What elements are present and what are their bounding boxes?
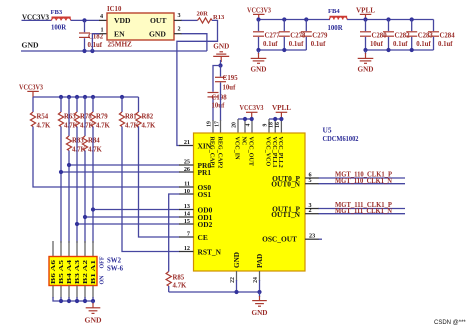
svg-text:10uf: 10uf <box>370 41 384 48</box>
wire pull-up rail <box>33 96 139 98</box>
svg-text:R82: R82 <box>142 113 154 120</box>
svg-text:19: 19 <box>207 121 213 127</box>
pin 20 stub (VCC_IN) <box>237 119 239 133</box>
svg-text:B2 A2: B2 A2 <box>82 259 89 284</box>
node junction PAD/rail <box>257 290 261 294</box>
resistor R63 4.7K (PR1 pull-up) <box>58 97 78 243</box>
node junction C282 bottom <box>386 48 390 52</box>
wire R81 to RST_N <box>122 127 180 252</box>
wire GND node to C198 branch <box>213 66 221 92</box>
wire OS1 from pin 10 down <box>179 193 194 195</box>
svg-text:B5 A5: B5 A5 <box>58 259 65 284</box>
wire VCC3V3 top rail <box>259 19 331 21</box>
svg-text:VCC_PLL2: VCC_PLL2 <box>277 137 283 168</box>
svg-text:VCC_PLL1: VCC_PLL1 <box>271 137 277 168</box>
svg-text:0.1uf: 0.1uf <box>263 41 278 48</box>
pin 16 stub (VCC_PLL2) <box>280 119 282 133</box>
power VCC3V3 (U5 core supply) <box>240 104 264 119</box>
pin 19 stub (REG_CAP1) <box>212 120 214 133</box>
svg-text:CDCM61002: CDCM61002 <box>323 134 359 143</box>
svg-text:MGT_110_CLK1_N: MGT_110_CLK1_N <box>335 178 392 185</box>
svg-text:OUT0_N: OUT0_N <box>271 180 300 189</box>
wire OSC_OUT stub <box>305 238 319 240</box>
node junction C283 <box>410 17 414 21</box>
svg-text:SW2: SW2 <box>107 257 122 264</box>
resistor R82 4.7K (CE pull-up) <box>136 97 156 130</box>
svg-text:22: 22 <box>230 277 236 283</box>
svg-text:R79: R79 <box>96 113 108 120</box>
ground GND (VPLL caps) <box>358 50 374 74</box>
capacitor C198 10uf <box>208 93 228 122</box>
svg-text:4: 4 <box>246 123 252 126</box>
svg-text:0.1uf: 0.1uf <box>311 41 326 48</box>
ground GND (above C195/C198) <box>213 43 229 66</box>
svg-text:PR1: PR1 <box>198 168 212 177</box>
svg-text:R84: R84 <box>88 137 100 144</box>
svg-text:0.1uf: 0.1uf <box>88 42 103 49</box>
node junction rail col2 <box>59 299 63 303</box>
svg-text:EN: EN <box>114 30 125 39</box>
node junction PR0/col <box>67 163 71 167</box>
svg-text:0.1uf: 0.1uf <box>416 41 431 48</box>
node junction rail/R79 <box>91 95 95 99</box>
node junction rail/R78 <box>75 95 79 99</box>
svg-text:18: 18 <box>269 122 275 128</box>
pin 18 stub (VCC_PLL1) <box>274 119 276 133</box>
svg-text:MGT_111_CLK1_N: MGT_111_CLK1_N <box>335 208 392 215</box>
svg-text:CSDN @***: CSDN @*** <box>434 320 466 326</box>
svg-text:OS1: OS1 <box>198 190 212 199</box>
wire OD1 <box>85 216 180 218</box>
svg-text:VCC_IN: VCC_IN <box>234 137 240 161</box>
wire OD2 <box>77 223 180 225</box>
node junction GND/C195/C198 <box>218 63 222 67</box>
power VPLL (decoupling group) <box>356 6 375 19</box>
ferrite bead FB4 <box>328 8 348 32</box>
node junction C278 <box>282 17 286 21</box>
wire VPLL tie bar <box>269 118 281 120</box>
node junction C277 bottom <box>256 48 260 52</box>
svg-text:FB4: FB4 <box>328 8 340 15</box>
resistor R81 4.7K (RST_N pull-up) <box>119 97 139 130</box>
capacitor C283 0.1uf <box>406 20 433 51</box>
svg-text:4.7K: 4.7K <box>96 123 110 130</box>
svg-text:16: 16 <box>275 122 281 128</box>
svg-text:4.7K: 4.7K <box>37 123 51 130</box>
svg-text:C277: C277 <box>265 33 281 40</box>
switch SW2 SW-6 <box>49 241 124 298</box>
wire PR0 <box>69 164 180 166</box>
svg-text:C284: C284 <box>440 33 456 40</box>
svg-text:R54: R54 <box>37 113 49 120</box>
svg-text:VCC3V3: VCC3V3 <box>247 6 271 14</box>
wire bottom rail (VPLL caps) <box>366 49 434 51</box>
wire R13 to XIN routing <box>177 20 218 145</box>
resistor R83 4.7K (PR0 pull-up) <box>66 97 86 243</box>
wire switch common rail <box>53 297 93 301</box>
capacitor C277 0.1uf <box>253 20 280 51</box>
capacitor C195 10uf <box>215 66 238 122</box>
svg-text:OUT: OUT <box>150 16 166 25</box>
pin 4 stub (VCC_OUT) <box>251 119 253 133</box>
svg-text:C198: C198 <box>212 95 228 102</box>
node junction C279 <box>304 17 308 21</box>
resistor R13 20R <box>197 10 226 23</box>
svg-text:REG_CAP1: REG_CAP1 <box>209 137 215 169</box>
power VPLL (U5 PLL supply) <box>272 104 291 119</box>
svg-text:24: 24 <box>253 277 259 283</box>
svg-text:GND: GND <box>22 42 39 50</box>
pin 17 stub (REG_CAP2) <box>220 120 222 133</box>
svg-text:100R: 100R <box>51 25 66 32</box>
node junction OD0/col <box>91 207 95 211</box>
wire FB4 to VPLL rail <box>347 19 433 21</box>
svg-text:OSC_OUT: OSC_OUT <box>262 234 297 243</box>
wire OD0 <box>93 209 180 211</box>
svg-text:GND: GND <box>149 30 166 39</box>
wire R82 to CE <box>139 127 180 238</box>
node junction rail/R84 <box>83 95 87 99</box>
node junction GND pin/rail <box>234 290 238 294</box>
svg-text:B6 A6: B6 A6 <box>50 259 57 284</box>
svg-text:4: 4 <box>100 13 103 20</box>
svg-text:VCC_VCO: VCC_VCO <box>265 137 271 167</box>
node junction EN/GND <box>90 49 94 53</box>
svg-text:0.1uf: 0.1uf <box>438 41 453 48</box>
svg-text:GND: GND <box>213 43 229 51</box>
svg-text:1: 1 <box>101 26 104 33</box>
svg-text:B4 A4: B4 A4 <box>66 259 73 284</box>
svg-text:GND: GND <box>233 252 241 268</box>
node junction rail col4 <box>75 299 79 303</box>
svg-text:4.7K: 4.7K <box>88 147 102 154</box>
svg-text:3: 3 <box>178 12 181 19</box>
power VCC3V3 (decoupling group) <box>247 6 271 19</box>
svg-text:CE: CE <box>198 233 208 242</box>
svg-text:2: 2 <box>178 26 181 33</box>
resistor R54 4.7K (OS0 pull-up) <box>30 97 51 130</box>
node junction C280 bottom <box>363 48 367 52</box>
svg-text:GND: GND <box>251 66 267 74</box>
node junction C182/GND <box>82 49 86 53</box>
svg-text:20: 20 <box>232 122 238 128</box>
wire FB3 to IC10 VDD pin 4 <box>71 19 100 21</box>
svg-text:20R: 20R <box>197 10 209 17</box>
node junction C182/VDD <box>82 18 86 22</box>
wire GND rail <box>21 50 207 52</box>
svg-text:SW-6: SW-6 <box>107 266 124 273</box>
node junction OD1/col <box>83 215 87 219</box>
pin 9 stub (VCC_VCO) <box>268 119 270 133</box>
ground GND (VCC3V3 caps) <box>251 50 267 74</box>
wire OUT1_P <box>305 208 319 210</box>
svg-text:B3 A3: B3 A3 <box>74 259 81 284</box>
svg-text:FB3: FB3 <box>51 9 63 16</box>
op-amp U5 CDCM61002 body <box>194 125 359 271</box>
svg-text:VCC3V3: VCC3V3 <box>240 104 264 112</box>
node junction OD2/col <box>75 222 79 226</box>
svg-text:17: 17 <box>215 121 221 127</box>
svg-text:4.7K: 4.7K <box>142 123 156 130</box>
pin NC stub <box>244 119 246 133</box>
capacitor C284 0.1uf <box>428 20 455 51</box>
resistor R85 4.7K <box>166 272 187 293</box>
node junction C278 bottom <box>282 48 286 52</box>
svg-text:10uf: 10uf <box>223 85 237 92</box>
svg-text:REG_CAP2: REG_CAP2 <box>217 137 223 169</box>
node GND (net label, left rail) <box>22 42 39 50</box>
wire PR1 <box>61 171 180 173</box>
node junction PR1/col <box>59 170 63 174</box>
wire VCC3V3 to FB3 <box>22 19 52 21</box>
ground GND (below switch) <box>85 301 102 324</box>
svg-text:100R: 100R <box>328 25 343 32</box>
node junction rail/R81 <box>120 95 124 99</box>
svg-text:NC: NC <box>241 137 247 146</box>
node junction rail/R63 <box>59 95 63 99</box>
capacitor C279 0.1uf <box>301 20 328 51</box>
node junction rail col5 <box>83 299 87 303</box>
svg-text:21: 21 <box>184 139 190 146</box>
svg-text:C279: C279 <box>312 33 328 40</box>
svg-text:VCC3V3: VCC3V3 <box>19 83 43 91</box>
node junction C282 <box>386 17 390 21</box>
svg-text:GND: GND <box>252 309 268 317</box>
wire IC10 OUT to R13 <box>174 19 182 21</box>
svg-text:PAD: PAD <box>256 254 264 268</box>
svg-text:IC10: IC10 <box>107 6 122 13</box>
svg-text:C195: C195 <box>223 75 239 82</box>
capacitor C282 0.1uf <box>383 20 410 51</box>
svg-text:VPLL: VPLL <box>272 104 291 112</box>
svg-text:0.1uf: 0.1uf <box>289 41 304 48</box>
svg-text:4.7K: 4.7K <box>173 282 187 289</box>
wire EN to GND rail <box>99 33 107 35</box>
svg-text:23: 23 <box>309 233 315 240</box>
ground GND (below U5 PAD) <box>252 292 268 317</box>
pin 24 stub (U5 PAD) <box>259 271 261 281</box>
node junction VPLL bar mid <box>273 117 277 121</box>
svg-text:OUT1_N: OUT1_N <box>271 210 300 219</box>
resistor R78 4.7K (OD2 pull-up) <box>74 97 94 243</box>
capacitor C278 0.1uf <box>279 20 306 51</box>
capacitor C280 10uf <box>360 20 387 51</box>
wire R54 to OS0 <box>33 127 180 188</box>
svg-text:B1 A1: B1 A1 <box>90 260 97 284</box>
svg-text:9: 9 <box>263 123 269 126</box>
svg-text:VCC_OUT: VCC_OUT <box>248 137 254 166</box>
resistor R84 4.7K (OD1 pull-up) <box>82 97 102 243</box>
node junction C283 bottom <box>410 48 414 52</box>
power VCC3V3 (pull-up rail) <box>19 83 43 97</box>
svg-text:10uf: 10uf <box>212 103 226 110</box>
node junction VCC bar <box>243 117 247 121</box>
pin 22 stub (U5 GND) <box>236 271 238 281</box>
node junction C280 <box>363 17 367 21</box>
oscillator IC10 25MHZ <box>107 6 174 48</box>
svg-text:RST_N: RST_N <box>198 247 222 256</box>
wire IC10 GND pin2 down to GND rail <box>174 33 182 35</box>
svg-text:0.1uf: 0.1uf <box>393 41 408 48</box>
svg-text:C182: C182 <box>88 34 104 41</box>
resistor R79 4.7K (OD0 pull-up) <box>90 97 110 243</box>
wire OUT0_P <box>305 177 319 179</box>
svg-text:VPLL: VPLL <box>356 6 375 14</box>
node VCC3V3 (net label, oscillator supply) <box>22 13 49 21</box>
wire bottom rail (VCC3V3 caps) <box>259 49 307 51</box>
svg-text:OFF: OFF <box>100 256 106 268</box>
svg-text:VDD: VDD <box>114 16 131 25</box>
svg-text:2: 2 <box>309 207 312 214</box>
node junction VPLL bar right <box>279 117 283 121</box>
wire OUT1_N <box>305 213 319 215</box>
svg-text:ON: ON <box>100 275 106 285</box>
wire ground rail under U5 <box>169 291 260 293</box>
node junction rail col6 <box>91 299 95 303</box>
svg-text:25MHZ: 25MHZ <box>108 40 133 48</box>
node junction VCC bar right <box>250 117 254 121</box>
svg-text:R85: R85 <box>173 274 185 281</box>
wire VCC tie bar (pins 20/NC/VCC_OUT) <box>238 118 252 120</box>
ferrite bead FB3 <box>51 9 71 31</box>
node junction rail col3 <box>67 299 71 303</box>
svg-text:GND: GND <box>358 66 374 74</box>
node junction rail/R83 <box>67 95 71 99</box>
capacitor C182 <box>79 20 104 51</box>
svg-text:GND: GND <box>85 316 102 324</box>
svg-text:OD2: OD2 <box>198 220 213 229</box>
node junction C277 <box>256 17 260 21</box>
wire OUT0_N <box>305 183 319 185</box>
